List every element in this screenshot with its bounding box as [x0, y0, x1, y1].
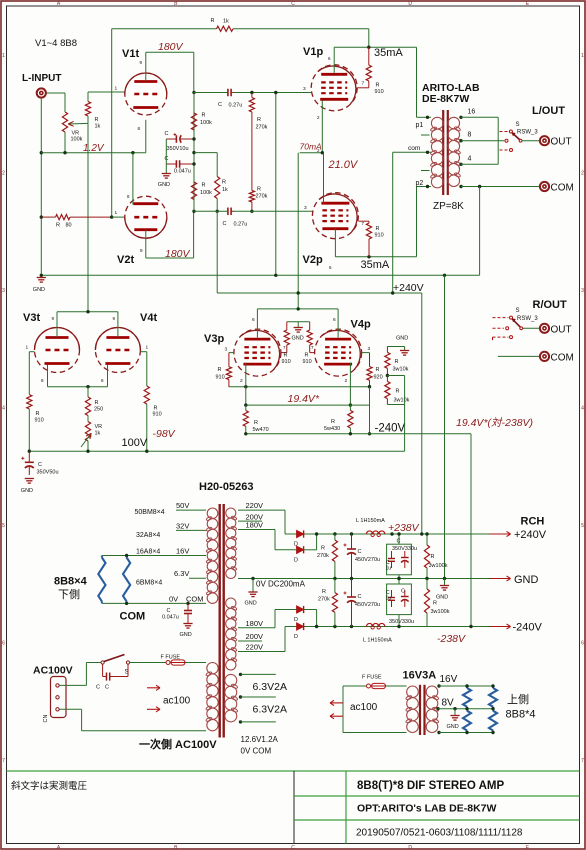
resistor R 5w470: [243, 405, 269, 434]
junction C450n rail: [350, 625, 353, 628]
wire V4t plate up: [117, 312, 119, 338]
label DE-8K7W: [422, 93, 469, 105]
label 6.3V2A b: [253, 704, 287, 716]
junction choke out: [390, 532, 393, 535]
svg-text:7: 7: [2, 758, 5, 764]
svg-text:p2: p2: [416, 180, 424, 187]
svg-text:R: R: [202, 183, 206, 189]
junction cathode tie: [86, 385, 89, 388]
label 8B8*4: [506, 709, 536, 721]
junction 8V tap: [436, 707, 439, 710]
label S switch L: [516, 122, 520, 128]
svg-text:D: D: [294, 634, 298, 640]
pin 9 V1t: [140, 60, 143, 65]
tube V1p pentode: [303, 46, 357, 111]
svg-text:920: 920: [374, 375, 383, 381]
tap 16V out: [439, 674, 493, 686]
svg-text:R: R: [331, 419, 335, 425]
pin 8 V3t: [41, 378, 44, 383]
wire R1k ext to rail: [216, 211, 218, 293]
pin 3 V1p: [303, 86, 306, 92]
label COM L: [551, 183, 574, 194]
label 50BM8x4: [135, 509, 165, 516]
svg-text:3: 3: [225, 347, 228, 353]
resistor R 270k lower: [249, 187, 267, 212]
pin 1 V2t: [115, 210, 118, 216]
junction +240 drop lands: [420, 532, 423, 535]
transformer H20 heater winding: [206, 508, 218, 603]
svg-text:50BM8×4: 50BM8×4: [135, 509, 165, 516]
pin 6 V1p: [328, 56, 331, 61]
pin 2 V1p: [317, 115, 320, 120]
svg-text:19.4V*(対-238V): 19.4V*(対-238V): [456, 417, 533, 429]
svg-text:6BM8×4: 6BM8×4: [136, 580, 162, 587]
svg-text:ac100: ac100: [350, 702, 378, 713]
title block row line 2: [294, 819, 580, 821]
svg-text:2: 2: [2, 171, 5, 177]
svg-text:6.3V: 6.3V: [174, 569, 189, 578]
svg-text:270k: 270k: [318, 597, 330, 603]
svg-text:H20-05263: H20-05263: [199, 481, 253, 493]
transformer 16V3A secondary winding: [426, 686, 439, 733]
capacitor block C 350V330u plus: [386, 534, 418, 579]
svg-text:250: 250: [94, 407, 103, 413]
svg-text:910: 910: [35, 418, 44, 424]
wire 220V to D4: [284, 627, 286, 652]
switch S power: [101, 655, 130, 676]
svg-text:R: R: [376, 367, 380, 373]
svg-text:OPT:ARITO's LAB DE-8K7W: OPT:ARITO's LAB DE-8K7W: [357, 803, 496, 815]
wire V2p cathode up: [323, 153, 325, 204]
junction R910b bottom: [367, 255, 370, 258]
svg-text:21.0V: 21.0V: [328, 159, 359, 171]
svg-text:OUT: OUT: [551, 324, 572, 335]
svg-text:1u: 1u: [386, 566, 392, 572]
svg-text:16: 16: [468, 109, 476, 116]
svg-text:20190507/0521-0603/1108/1111/1: 20190507/0521-0603/1108/1111/1128: [356, 828, 523, 839]
svg-text:AC100V: AC100V: [33, 665, 73, 677]
heater 8B8 upper a1: [463, 686, 471, 709]
wire V1t plate over: [146, 51, 194, 53]
svg-text:+240V: +240V: [393, 282, 424, 294]
svg-text:S: S: [516, 308, 520, 314]
ground mid rail 2: [436, 586, 449, 601]
svg-text:斜文字は実測電圧: 斜文字は実測電圧: [11, 780, 88, 792]
arrow -240V out: [489, 624, 511, 629]
svg-text:R: R: [95, 400, 99, 406]
wire V4t grid out: [140, 351, 146, 353]
svg-text:R: R: [257, 117, 261, 123]
svg-text:D: D: [408, 845, 412, 850]
resistor R 910 V3t: [27, 352, 44, 452]
resistor R 100k lower: [191, 164, 212, 211]
svg-text:-240V: -240V: [513, 622, 543, 634]
wire 220V to D1: [284, 510, 286, 534]
ground 350V50u: [21, 479, 34, 495]
pin 3 V2p: [304, 205, 307, 211]
label com: [408, 145, 420, 152]
svg-text:D: D: [294, 617, 298, 623]
wire 0 tap: [461, 186, 539, 188]
wire pot top lead: [64, 93, 66, 110]
svg-text:R: R: [257, 187, 261, 193]
junction R270kp rail: [333, 532, 336, 535]
svg-text:V1p: V1p: [303, 46, 323, 58]
label GND 3w10k: [396, 336, 408, 342]
junction sec 8: [459, 139, 462, 142]
svg-text:220V: 220V: [246, 501, 264, 510]
svg-text:350V330u: 350V330u: [389, 619, 414, 625]
junction mid R100kp: [425, 577, 428, 580]
svg-text:R: R: [211, 18, 215, 24]
svg-text:+238V: +238V: [388, 522, 420, 534]
label ac100 H20: [163, 696, 191, 707]
junction rail com: [391, 291, 394, 294]
label -238V: [437, 633, 466, 645]
svg-text:C: C: [291, 1, 295, 7]
label 100V: [122, 437, 148, 449]
svg-text:270k: 270k: [317, 553, 329, 559]
wire mid node to R1k: [194, 152, 217, 154]
junction cap2 ladder: [192, 162, 195, 165]
tap 200V upper: [238, 512, 263, 521]
svg-text:1u: 1u: [386, 596, 392, 602]
label -240V line: [375, 423, 406, 435]
svg-text:100k: 100k: [71, 137, 83, 143]
svg-text:L 1H150mA: L 1H150mA: [363, 638, 392, 644]
wire R COM stub: [498, 355, 539, 357]
svg-text:5w430: 5w430: [324, 426, 340, 432]
resistor R 1k feedback: [112, 18, 369, 31]
wire GND bus: [41, 274, 479, 276]
wire gnd 8V stub: [454, 709, 456, 716]
capacitor C 0.047u decouple: [165, 156, 195, 175]
svg-text:8: 8: [468, 132, 472, 139]
svg-text:CN: CN: [43, 715, 49, 723]
pin 6 V2p: [329, 265, 332, 270]
junction 6.3b: [239, 695, 242, 698]
tap 220V lower: [238, 643, 285, 652]
svg-text:4: 4: [581, 406, 584, 412]
node R920 ext: [369, 387, 371, 434]
junction box rail top: [397, 532, 400, 535]
svg-text:GND: GND: [158, 182, 170, 188]
heater 8B8 lower a: [98, 556, 105, 604]
wire V1p cathode down: [321, 101, 323, 153]
svg-text:1k: 1k: [95, 431, 101, 437]
arrow RCH +240V: [489, 531, 511, 536]
title block vline black: [293, 771, 295, 844]
junction grid-R80: [110, 215, 113, 218]
junction R270k bottom: [250, 210, 253, 213]
node 3w10k riser: [404, 376, 406, 452]
junction 100V left: [28, 450, 31, 453]
svg-text:0.27u: 0.27u: [229, 103, 243, 109]
tap 220V upper: [238, 501, 285, 510]
svg-text:DE-8K7W: DE-8K7W: [422, 93, 469, 105]
wire prim16 left: [342, 686, 344, 733]
junction pot bottom: [63, 151, 66, 154]
wire 35mA plate line: [334, 46, 416, 48]
junction rail cathodes: [297, 291, 300, 294]
junction D2 rail: [315, 532, 318, 535]
svg-text:GND: GND: [245, 601, 257, 607]
heater 8B8 upper b1: [489, 686, 497, 709]
svg-text:12.6V1.2A: 12.6V1.2A: [241, 735, 279, 744]
wire jack tip to pot: [47, 92, 66, 94]
wire 3w10k mid tap: [387, 375, 404, 377]
svg-text:C: C: [401, 589, 405, 595]
svg-text:COM: COM: [551, 183, 574, 194]
potentiometer VR 100k: [62, 110, 88, 153]
junction sec 16: [459, 116, 462, 119]
svg-text:GND: GND: [514, 574, 539, 586]
junction 6.3a: [239, 673, 242, 676]
svg-text:V3p: V3p: [204, 333, 224, 345]
svg-text:3: 3: [581, 288, 584, 294]
capacitor C 350V50u: [21, 451, 58, 475]
label p2: [416, 180, 424, 187]
diode D2: [294, 546, 304, 563]
label GND out: [514, 574, 539, 586]
svg-text:180V: 180V: [158, 41, 184, 53]
svg-text:6.3V2A: 6.3V2A: [253, 681, 287, 693]
pin 7 V1p: [362, 81, 365, 87]
wire V2t plate down: [145, 230, 147, 258]
resistor R 910 screen V2p: [359, 221, 384, 257]
capacitor block C 350V330u minus: [386, 579, 415, 627]
wire 0V mid rail: [238, 578, 497, 580]
wire V4p plate up: [337, 309, 339, 338]
svg-text:1.2V: 1.2V: [83, 143, 105, 154]
svg-text:8B8*4: 8B8*4: [506, 709, 536, 721]
wire caps left join: [165, 139, 167, 174]
resistor R 3w10k lower: [385, 376, 410, 405]
svg-text:VR: VR: [95, 424, 103, 430]
svg-text:5w470: 5w470: [253, 427, 269, 433]
jack L OUT: [540, 136, 549, 145]
switch S RSW_3 R wiper: [512, 318, 523, 329]
label L-INPUT: [22, 73, 61, 84]
svg-text:C: C: [96, 685, 100, 691]
tap 200V lower: [238, 632, 263, 641]
pin 2 V4p: [345, 378, 348, 384]
resistor R 910 screen V3p: [281, 322, 291, 365]
junction -240 a: [244, 432, 247, 435]
svg-text:6: 6: [2, 641, 5, 647]
label -98V: [153, 428, 176, 440]
node grid-gnd vertical: [275, 93, 277, 276]
resistor R 5w430: [324, 405, 353, 434]
label 6BM8x4: [136, 580, 162, 587]
wire V1t plate up: [145, 52, 147, 81]
svg-text:R/OUT: R/OUT: [533, 299, 568, 311]
svg-text:R: R: [376, 83, 380, 89]
svg-text:180V: 180V: [246, 521, 264, 530]
title date: [356, 828, 523, 839]
label 19.4V*: [288, 393, 320, 405]
svg-text:R: R: [431, 554, 435, 560]
wire 8 tap: [461, 140, 504, 142]
arrow GND out: [489, 576, 511, 581]
wire V1t cathode drop: [145, 120, 147, 153]
label p1: [416, 122, 424, 129]
svg-text:3w10k: 3w10k: [393, 367, 409, 373]
svg-text:GND: GND: [180, 632, 192, 638]
switch S RSW_3 L wiper: [512, 132, 522, 142]
wire 16 tap: [461, 116, 498, 118]
label 70mA: [300, 142, 323, 152]
jack R COM: [540, 352, 549, 361]
pin 9 V2t: [140, 248, 143, 253]
junction com: [426, 151, 429, 154]
wire V2p plate down: [334, 229, 336, 257]
resistor R 1k mid: [215, 153, 228, 212]
pin 8 V1t: [138, 126, 141, 131]
title block row line 1: [294, 795, 580, 797]
inductor L 1H150mA plus: [356, 518, 385, 537]
svg-text:4: 4: [468, 156, 472, 163]
svg-text:180V: 180V: [246, 619, 264, 628]
svg-text:80: 80: [66, 223, 72, 229]
label S switch R: [516, 308, 520, 314]
connector CN: [43, 677, 66, 723]
svg-text:R: R: [396, 389, 400, 395]
svg-text:910: 910: [153, 412, 162, 418]
wire p2 tap: [417, 186, 431, 188]
wire 100V line: [29, 450, 404, 452]
transformer H20 core: [220, 504, 224, 738]
wire 4 tap: [461, 163, 498, 165]
junction R270k top: [250, 91, 253, 94]
svg-text:5: 5: [581, 523, 584, 529]
junction v4p cathode: [349, 403, 352, 406]
svg-text:1k: 1k: [95, 124, 101, 130]
heater 8B8 upper b2: [489, 709, 497, 733]
junction R80 gnd: [40, 215, 43, 218]
junction grid-gnd bottom: [274, 274, 277, 277]
junction sec 0: [459, 185, 462, 188]
svg-text:1: 1: [581, 53, 584, 59]
svg-text:R: R: [321, 546, 325, 552]
svg-text:L-INPUT: L-INPUT: [22, 73, 61, 84]
transformer OPT core: [443, 110, 448, 195]
svg-text:V1~4 8B8: V1~4 8B8: [35, 38, 77, 49]
junction C450p rail: [350, 532, 353, 535]
tap 32V: [176, 521, 206, 530]
svg-text:GND: GND: [396, 336, 408, 342]
wire V2t plate up: [193, 211, 195, 258]
resistor R 80: [41, 215, 111, 229]
resistor R 3w100k plus: [424, 534, 447, 579]
node feedback vertical: [111, 29, 113, 217]
svg-text:R: R: [218, 367, 222, 373]
wire 180V to D3: [274, 610, 276, 628]
svg-text:3: 3: [2, 288, 5, 294]
pin 7 V3p: [283, 345, 286, 350]
svg-text:50V: 50V: [176, 501, 189, 510]
arrow ac100 a: [147, 685, 160, 690]
tap 6.3V2A c: [241, 721, 276, 723]
svg-text:C: C: [38, 462, 42, 468]
pin 6 V4p: [333, 317, 336, 323]
svg-text:220V: 220V: [246, 643, 264, 652]
svg-text:R: R: [56, 223, 60, 229]
svg-text:GND: GND: [33, 287, 45, 293]
svg-text:270k: 270k: [256, 125, 268, 131]
wire com tap: [393, 151, 431, 153]
svg-text:下側: 下側: [58, 588, 80, 601]
wire mid gnd1 stub: [252, 579, 254, 593]
label 6.3V2A a: [253, 681, 287, 693]
wire D3 out: [304, 610, 317, 627]
svg-text:7: 7: [362, 81, 365, 87]
svg-text:V1t: V1t: [122, 48, 139, 60]
ground main bus: [33, 278, 46, 294]
label ZP=8K: [433, 201, 464, 212]
note italic is measured voltage: [11, 780, 88, 792]
svg-text:16V: 16V: [176, 546, 189, 555]
label 1.2V measured: [83, 143, 105, 154]
resistor R 910 screen V4p: [303, 322, 315, 365]
svg-text:8B8(T)*8 DIF STEREO AMP: 8B8(T)*8 DIF STEREO AMP: [357, 780, 505, 792]
resistor R 910 screen V1p: [357, 47, 383, 95]
junction sec 4: [459, 163, 462, 166]
wire V2p grid line: [233, 210, 313, 212]
pin 7 V2p: [362, 221, 365, 226]
junction plate tie p: [297, 307, 300, 310]
svg-text:ZP=8K: ZP=8K: [433, 201, 464, 212]
svg-text:R: R: [284, 353, 288, 359]
svg-text:7: 7: [581, 758, 584, 764]
svg-text:ac100: ac100: [163, 696, 191, 707]
svg-text:6: 6: [252, 317, 255, 323]
wire -240V line: [246, 433, 471, 435]
diode D3: [294, 606, 304, 623]
svg-text:450V270u: 450V270u: [355, 602, 380, 608]
label shitagawa: [58, 588, 80, 601]
wire feedback drop: [368, 29, 370, 47]
label COM heater: [120, 611, 146, 623]
wire D2 left: [275, 549, 297, 551]
capacitor C 0.27u bottom: [223, 208, 248, 228]
junction gnd 8V: [453, 707, 456, 710]
ground screens: [294, 328, 303, 333]
fuse F power: [161, 655, 186, 666]
ground heater com: [180, 624, 193, 639]
ground 16V3A: [447, 716, 460, 731]
svg-text:GND: GND: [447, 724, 459, 730]
svg-text:6.3V2A: 6.3V2A: [253, 704, 287, 716]
pin 7 V4p: [311, 345, 314, 350]
label COM R: [551, 352, 574, 363]
switch S RSW_3 L throws: [500, 130, 513, 152]
svg-text:35mA: 35mA: [361, 259, 390, 271]
tube V1t triode: [122, 41, 184, 115]
svg-text:R: R: [433, 601, 437, 607]
svg-text:R: R: [305, 353, 309, 359]
wire V3t grid out: [29, 351, 34, 353]
transformer H20 primary winding: [206, 663, 219, 731]
label uegawa: [507, 693, 529, 706]
label H20-05263: [199, 481, 253, 493]
resistor R 3w10k upper: [385, 347, 409, 376]
pin 1 V4t: [146, 345, 149, 351]
svg-text:19.4V*: 19.4V*: [288, 393, 320, 405]
wire 0 to gnd bus: [479, 187, 481, 276]
junction jack-1.2V: [40, 151, 43, 154]
svg-text:32A8×4: 32A8×4: [136, 532, 160, 539]
